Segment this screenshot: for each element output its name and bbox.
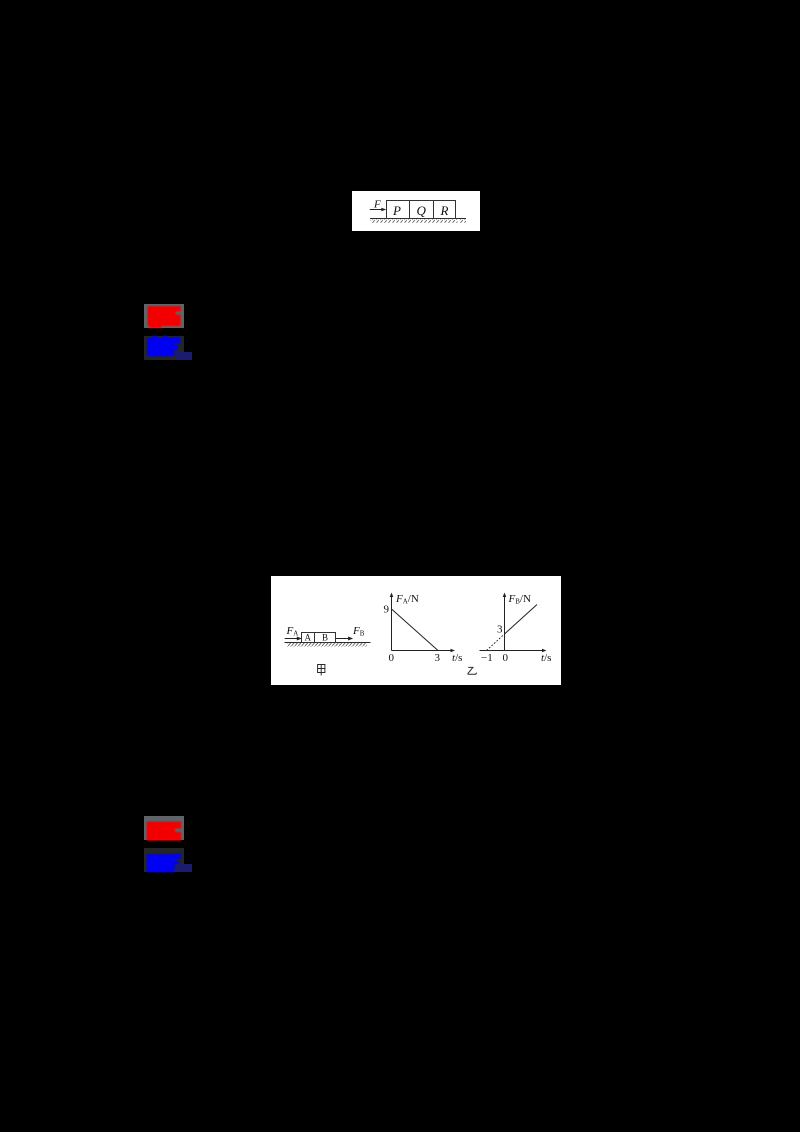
block P (387, 201, 410, 219)
svg-text:3: 3 (435, 652, 441, 664)
svg-text:P: P (392, 203, 401, 218)
force arrow FB (336, 638, 351, 640)
svg-text:0: 0 (503, 652, 509, 664)
figure: three blocks P Q R on ground pushed by force F (352, 191, 480, 231)
label: answer tag 2 (red text on gray) (144, 816, 184, 840)
graph FA: descending line (392, 609, 439, 651)
graph FB: rising line solid (505, 605, 538, 635)
label: answer tag 1 (red text on gray) (144, 304, 184, 328)
svg-text:B: B (322, 633, 328, 643)
graph FA: x axis (392, 650, 454, 652)
svg-text:0: 0 (389, 652, 395, 664)
ground (285, 642, 371, 644)
svg-text:9: 9 (384, 604, 390, 616)
block A (302, 633, 315, 643)
caption yi (乙) (468, 667, 477, 674)
svg-text:Q: Q (417, 203, 427, 218)
label: analysis tag 2 (blue text on dark) (144, 848, 184, 872)
svg-text:t/s: t/s (541, 652, 551, 664)
label: analysis tag 1 (blue text on dark) (144, 336, 184, 360)
block R (434, 201, 456, 219)
svg-text:3: 3 (497, 624, 503, 636)
graph FB: y axis (504, 595, 506, 651)
svg-text:FB/N: FB/N (508, 593, 531, 606)
caption jia (甲) (318, 665, 325, 676)
figure: blocks A B with forces FA FB and two F-t graphs (271, 576, 561, 685)
force arrow F (370, 209, 384, 211)
graph FB: x axis (480, 650, 545, 652)
navy accent box 2 (176, 864, 192, 872)
svg-text:R: R (440, 203, 449, 218)
svg-text:A: A (305, 633, 312, 643)
svg-text:FB: FB (352, 625, 365, 638)
svg-text:F: F (373, 198, 381, 210)
graph FB: rising line dashed (487, 634, 505, 651)
graph FA: y axis (391, 595, 393, 651)
svg-text:−1: −1 (481, 652, 493, 664)
svg-text:FA: FA (286, 625, 299, 638)
ground (370, 218, 466, 220)
block B (315, 633, 336, 643)
navy accent box 1 (176, 352, 192, 360)
block Q (410, 201, 434, 219)
force arrow FA (285, 638, 300, 640)
svg-text:t/s: t/s (452, 652, 462, 664)
svg-text:FA/N: FA/N (395, 593, 419, 606)
